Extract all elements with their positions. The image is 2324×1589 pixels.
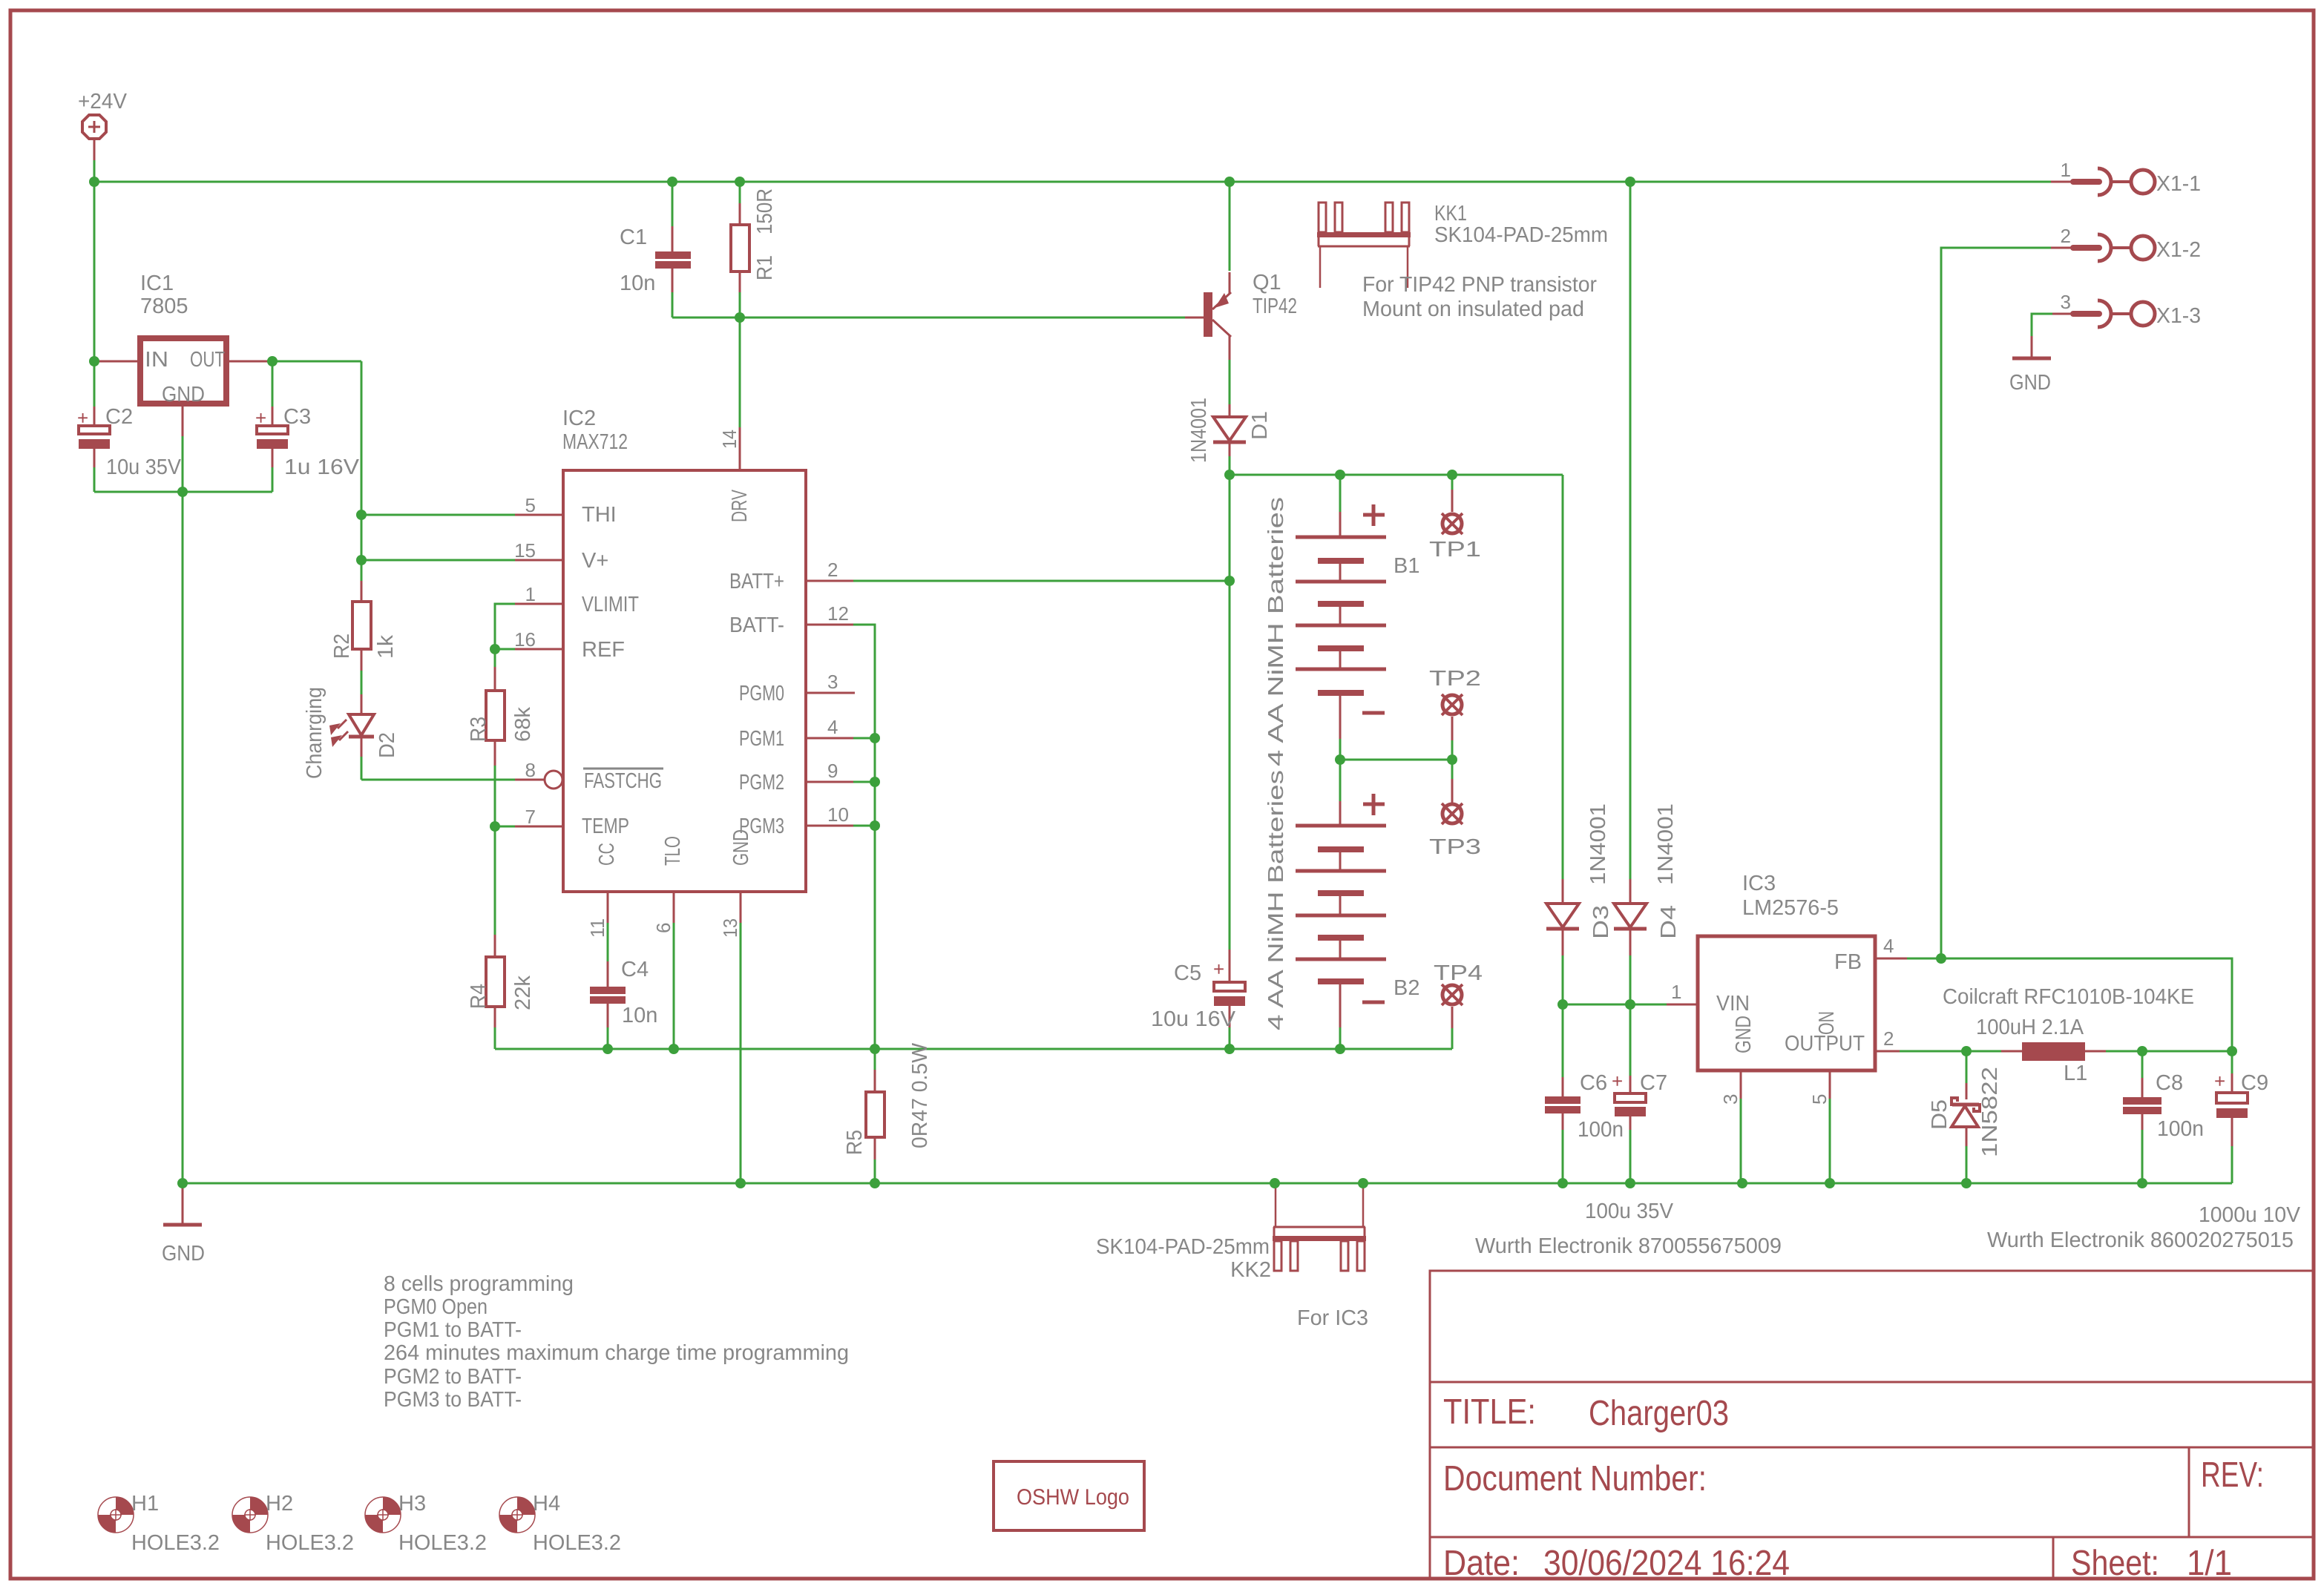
- svg-text:10n: 10n: [622, 1004, 657, 1027]
- IC2 pin 12 BATT-: [806, 624, 853, 626]
- ground rail wire: [182, 1182, 2232, 1185]
- svg-text:PGM0 Open: PGM0 Open: [384, 1295, 488, 1319]
- svg-text:C6: C6: [1580, 1071, 1607, 1095]
- svg-text:PGM2: PGM2: [739, 771, 784, 794]
- svg-text:6: 6: [652, 923, 674, 933]
- connector X1-2: [2051, 225, 2201, 262]
- svg-text:D1: D1: [1248, 411, 1272, 440]
- diode D4 1N4001: [1614, 803, 1681, 1004]
- wire battery column down: [1229, 475, 1231, 951]
- svg-text:R5: R5: [843, 1130, 867, 1155]
- svg-text:IC1: IC1: [140, 272, 174, 295]
- svg-text:12: 12: [827, 602, 849, 625]
- IC1 7805 regulator: [98, 272, 272, 438]
- svg-text:C7: C7: [1640, 1071, 1667, 1095]
- svg-text:100uH 2.1A: 100uH 2.1A: [1976, 1016, 2084, 1039]
- svg-text:7: 7: [525, 806, 536, 828]
- resistor R2: [330, 581, 398, 696]
- svg-text:HOLE3.2: HOLE3.2: [533, 1531, 621, 1555]
- wire BATT+: [853, 580, 1230, 582]
- IC3 pin 1 VIN: [1667, 1004, 1698, 1006]
- svg-text:3: 3: [827, 671, 838, 693]
- connector X1-3: [2051, 291, 2201, 328]
- wire FB up to X1-2: [1941, 248, 2052, 958]
- IC3 LM2576-5: [1667, 872, 1908, 1105]
- IC2 pin 3 PGM0 open: [806, 692, 855, 694]
- svg-text:9: 9: [827, 760, 838, 782]
- test point TP3: [1429, 760, 1481, 859]
- wire battery mid tap: [1340, 759, 1452, 761]
- svg-text:VIN: VIN: [1716, 992, 1750, 1016]
- IC3 pin 5 ON: [1829, 1070, 1831, 1100]
- mounting hole H1: [98, 1492, 220, 1555]
- IC3 pin 2 OUTPUT: [1875, 1050, 1901, 1053]
- IC2 pin 2 BATT+: [806, 580, 853, 582]
- svg-text:1N4001: 1N4001: [1586, 803, 1610, 885]
- wire battery top net: [1230, 474, 1563, 476]
- wire REF: [495, 648, 515, 651]
- svg-text:10u 16V: 10u 16V: [1151, 1007, 1236, 1031]
- svg-text:1: 1: [525, 583, 536, 605]
- svg-text:D4: D4: [1657, 905, 1681, 939]
- svg-text:1N4001: 1N4001: [1187, 398, 1211, 463]
- svg-text:C1: C1: [620, 226, 647, 249]
- wire VLIMIT to REF column: [495, 604, 515, 649]
- svg-text:IN: IN: [145, 348, 168, 372]
- svg-text:IC3: IC3: [1742, 872, 1776, 895]
- capacitor C9: [1987, 1051, 2301, 1252]
- heatsink KK1 SK104-PAD-25mm: [1317, 202, 1608, 321]
- wire DRV column: [739, 318, 741, 427]
- svg-text:10u 35V: 10u 35V: [106, 455, 182, 479]
- svg-text:16: 16: [514, 628, 536, 651]
- capacitor C6: [1545, 1004, 1624, 1183]
- IC2 MAX712: [514, 407, 855, 938]
- wire bottom BATT- net: [495, 1048, 1452, 1050]
- svg-text:For IC3: For IC3: [1297, 1306, 1368, 1330]
- svg-text:X1-2: X1-2: [2156, 238, 2201, 262]
- svg-text:13: 13: [719, 918, 741, 938]
- IC2 pin 9 PGM2: [806, 781, 853, 783]
- wire L1 to C8/C9: [2106, 1050, 2232, 1053]
- svg-text:10n: 10n: [620, 272, 655, 295]
- svg-text:For TIP42 PNP transistor: For TIP42 PNP transistor: [1362, 273, 1597, 297]
- svg-text:+24V: +24V: [78, 90, 128, 113]
- test point TP2: [1429, 667, 1481, 760]
- wire V+: [361, 559, 515, 562]
- svg-text:+: +: [1612, 1070, 1623, 1092]
- svg-text:1N5822: 1N5822: [1978, 1067, 2002, 1157]
- svg-text:TITLE:: TITLE:: [1443, 1392, 1536, 1432]
- IC2 pin 15 V+: [515, 559, 563, 562]
- svg-text:DRV: DRV: [728, 490, 752, 522]
- svg-text:TLO: TLO: [661, 836, 685, 866]
- wire TEMP: [495, 826, 515, 828]
- mounting hole H2: [232, 1492, 354, 1555]
- wire PGM2: [853, 781, 875, 783]
- svg-text:BATT+: BATT+: [729, 570, 784, 593]
- transistor Q1 TIP42: [1185, 182, 1297, 361]
- resistor R3: [467, 649, 535, 826]
- svg-text:1N4001: 1N4001: [1654, 803, 1678, 885]
- svg-text:H4: H4: [533, 1492, 560, 1516]
- svg-text:3: 3: [2061, 291, 2071, 313]
- svg-text:BATT-: BATT-: [729, 613, 784, 637]
- wire D2 to FASTCHG: [361, 779, 515, 781]
- capacitor C3: [255, 361, 360, 492]
- wire R1 bottom to Q1 base: [740, 317, 1187, 319]
- wire top rail: [94, 181, 2052, 183]
- wire OUTPUT net: [1900, 1050, 2003, 1053]
- svg-text:H2: H2: [266, 1492, 293, 1516]
- svg-text:C4: C4: [621, 958, 649, 981]
- svg-text:H1: H1: [131, 1492, 159, 1516]
- IC2 pin 8 FASTCHG with bubble: [515, 779, 544, 781]
- svg-text:2: 2: [2061, 225, 2071, 247]
- svg-text:GND: GND: [162, 1242, 205, 1266]
- svg-text:5: 5: [525, 494, 536, 516]
- capacitor C8: [2123, 1051, 2204, 1183]
- svg-text:X1-1: X1-1: [2156, 172, 2201, 196]
- heatsink KK2 SK104-PAD-25mm for IC3: [1096, 1183, 1368, 1330]
- svg-text:GND: GND: [2009, 371, 2051, 395]
- connector X1-1: [2051, 159, 2201, 196]
- svg-text:68k: 68k: [511, 707, 535, 742]
- svg-text:PGM0: PGM0: [739, 682, 784, 705]
- svg-text:THI: THI: [582, 503, 617, 527]
- svg-text:Mount on insulated pad: Mount on insulated pad: [1362, 297, 1584, 321]
- svg-text:HOLE3.2: HOLE3.2: [131, 1531, 220, 1555]
- svg-text:Document Number:: Document Number:: [1443, 1459, 1707, 1498]
- wire Q1 collector to D1: [1229, 360, 1231, 406]
- svg-text:C5: C5: [1174, 961, 1201, 985]
- svg-text:11: 11: [586, 918, 608, 938]
- wire IC3 GND pin to rail: [1740, 1099, 1742, 1183]
- svg-text:2: 2: [1883, 1027, 1894, 1050]
- IC2 pin 4 PGM1: [806, 737, 853, 740]
- wire C1 bottom to R1 bottom: [672, 317, 740, 319]
- svg-text:FASTCHG: FASTCHG: [584, 769, 662, 793]
- capacitor C2: [77, 361, 182, 492]
- diode D1 1N4001: [1187, 398, 1272, 475]
- svg-text:Wurth Electronik 860020275015: Wurth Electronik 860020275015: [1987, 1228, 2294, 1252]
- wire IC1 GND down to ground rail: [182, 436, 184, 1183]
- capacitor C4: [590, 923, 657, 1049]
- svg-text:OSHW Logo: OSHW Logo: [1017, 1485, 1129, 1510]
- svg-text:8 cells programming: 8 cells programming: [384, 1272, 574, 1296]
- svg-text:Coilcraft RFC1010B-104KE: Coilcraft RFC1010B-104KE: [1943, 985, 2194, 1009]
- resistor R4: [467, 826, 535, 1049]
- svg-text:Sheet:: Sheet:: [2071, 1544, 2159, 1583]
- svg-text:OUTPUT: OUTPUT: [1785, 1032, 1865, 1056]
- svg-text:4: 4: [1883, 935, 1894, 957]
- svg-text:2: 2: [827, 559, 838, 581]
- svg-text:100n: 100n: [2157, 1117, 2204, 1141]
- wire VIN net: [1563, 1004, 1668, 1006]
- svg-text:SK104-PAD-25mm: SK104-PAD-25mm: [1096, 1235, 1270, 1259]
- svg-text:8: 8: [525, 759, 536, 781]
- svg-text:PGM1 to BATT-: PGM1 to BATT-: [384, 1318, 522, 1342]
- svg-text:REV:: REV:: [2201, 1455, 2264, 1495]
- wire PGM1: [853, 737, 875, 740]
- battery B2 4 AA NiMH: [1264, 760, 1419, 1049]
- wire down to THI column: [361, 361, 363, 581]
- IC2 pin 1 VLIMIT: [515, 603, 563, 605]
- IC3 pin 3 GND: [1740, 1070, 1742, 1100]
- svg-text:1/1: 1/1: [2187, 1544, 2232, 1583]
- svg-text:1000u 10V: 1000u 10V: [2199, 1203, 2301, 1227]
- battery B1 4 AA NiMH: [1264, 475, 1419, 766]
- svg-text:TP4: TP4: [1434, 961, 1483, 985]
- svg-text:KK2: KK2: [1230, 1258, 1271, 1282]
- wire +24V to top rail: [93, 160, 96, 182]
- svg-text:R3: R3: [467, 717, 490, 742]
- svg-text:4 AA NiMH Batteries: 4 AA NiMH Batteries: [1264, 497, 1288, 766]
- svg-text:HOLE3.2: HOLE3.2: [398, 1531, 487, 1555]
- svg-text:OUT: OUT: [190, 348, 225, 372]
- mounting hole H3: [365, 1492, 487, 1555]
- IC2 pin 6 TLO: [673, 892, 675, 923]
- svg-text:D5: D5: [1928, 1099, 1952, 1130]
- svg-text:3: 3: [1719, 1094, 1742, 1105]
- svg-text:C9: C9: [2241, 1071, 2268, 1095]
- test point TP4: [1434, 961, 1483, 1049]
- svg-text:TP3: TP3: [1429, 835, 1481, 859]
- svg-text:PGM2 to BATT-: PGM2 to BATT-: [384, 1365, 522, 1389]
- svg-text:KK1: KK1: [1434, 202, 1467, 226]
- svg-text:4 AA NiMH Batteries: 4 AA NiMH Batteries: [1264, 770, 1288, 1030]
- IC2 pin 13 GND: [740, 892, 742, 923]
- svg-text:PGM3 to BATT-: PGM3 to BATT-: [384, 1388, 522, 1412]
- mounting hole H4: [499, 1492, 621, 1555]
- svg-text:LM2576-5: LM2576-5: [1742, 896, 1839, 920]
- IC3 pin 4 FB: [1875, 958, 1908, 960]
- wire IC3 ON pin to rail: [1829, 1099, 1831, 1183]
- svg-text:VLIMIT: VLIMIT: [582, 593, 639, 616]
- capacitor C7: [1475, 1004, 1782, 1258]
- svg-text:100u 35V: 100u 35V: [1585, 1200, 1674, 1223]
- svg-text:IC2: IC2: [562, 407, 596, 430]
- svg-text:1u 16V: 1u 16V: [284, 455, 360, 479]
- svg-text:H3: H3: [398, 1492, 426, 1516]
- svg-text:1k: 1k: [374, 634, 398, 659]
- svg-text:150R: 150R: [753, 188, 777, 234]
- wire OUT to C3/right: [272, 361, 361, 363]
- svg-text:Date:: Date:: [1443, 1544, 1520, 1583]
- wire FB net: [1907, 958, 2232, 1051]
- svg-text:+: +: [1213, 958, 1224, 980]
- wire PGM3: [853, 825, 875, 827]
- svg-text:1: 1: [1671, 981, 1681, 1003]
- wire D4 branch from top rail: [1629, 182, 1632, 881]
- svg-text:L1: L1: [2064, 1062, 2087, 1085]
- IC1 pin OUT: [229, 361, 272, 363]
- svg-text:GND: GND: [1732, 1016, 1756, 1053]
- svg-text:10: 10: [827, 803, 849, 826]
- svg-text:GND: GND: [162, 383, 205, 407]
- svg-text:B1: B1: [1394, 554, 1419, 578]
- supply symbol +24V: [78, 90, 128, 160]
- svg-text:+: +: [2214, 1070, 2225, 1092]
- test point TP1: [1429, 475, 1481, 562]
- svg-text:SK104-PAD-25mm: SK104-PAD-25mm: [1434, 223, 1608, 247]
- OSHW Logo box: [994, 1461, 1144, 1530]
- capacitor C1: [620, 182, 691, 318]
- IC2 pin 11 CC: [607, 892, 609, 923]
- svg-text:PGM3: PGM3: [739, 815, 784, 838]
- svg-text:4: 4: [827, 716, 838, 738]
- svg-text:REF: REF: [582, 638, 625, 662]
- svg-text:V+: V+: [582, 549, 608, 573]
- ground symbol GND left: [162, 1183, 205, 1266]
- resistor R5: [843, 1042, 932, 1183]
- LED D2: [303, 687, 399, 780]
- wire X1-3 to ground: [2032, 314, 2052, 338]
- svg-text:B2: B2: [1394, 976, 1419, 1000]
- svg-text:R1: R1: [753, 255, 777, 280]
- IC2 pin 16 REF: [515, 648, 563, 651]
- svg-text:14: 14: [718, 430, 741, 449]
- svg-text:FB: FB: [1834, 950, 1862, 974]
- svg-text:100n: 100n: [1578, 1118, 1624, 1142]
- svg-text:Wurth Electronik 870055675009: Wurth Electronik 870055675009: [1475, 1234, 1782, 1258]
- svg-text:Q1: Q1: [1253, 271, 1281, 295]
- wire TLO to bottom: [673, 923, 675, 1049]
- svg-text:264 minutes maximum charge tim: 264 minutes maximum charge time programm…: [384, 1341, 849, 1365]
- svg-text:TEMP: TEMP: [582, 815, 629, 838]
- svg-text:TP1: TP1: [1429, 538, 1481, 562]
- svg-text:15: 15: [514, 539, 536, 562]
- svg-text:22k: 22k: [511, 976, 535, 1010]
- wire BATT- to PGM column: [853, 625, 875, 1049]
- ground symbol GND right: [2009, 336, 2051, 395]
- svg-text:D3: D3: [1589, 905, 1613, 939]
- resistor R1: [731, 182, 777, 318]
- title block frame: [1430, 1271, 2314, 1579]
- wire C2/GND/C3 bottom: [94, 491, 272, 493]
- svg-text:TP2: TP2: [1429, 667, 1481, 691]
- IC1 pin GND: [182, 407, 184, 438]
- svg-text:R2: R2: [330, 634, 354, 659]
- svg-text:Chanrging: Chanrging: [303, 687, 326, 779]
- svg-text:1: 1: [2061, 159, 2071, 181]
- schottky diode D5 1N5822: [1928, 1051, 2002, 1183]
- wire IC2 GND to ground rail: [740, 923, 742, 1183]
- svg-text:R4: R4: [467, 984, 490, 1009]
- svg-text:D2: D2: [375, 732, 399, 758]
- svg-text:0R47 0.5W: 0R47 0.5W: [908, 1042, 932, 1148]
- svg-text:MAX712: MAX712: [562, 430, 628, 454]
- svg-text:C8: C8: [2156, 1071, 2183, 1095]
- svg-text:CC: CC: [595, 843, 619, 866]
- svg-text:7805: 7805: [140, 295, 188, 318]
- IC1 pin IN: [98, 361, 137, 363]
- svg-text:HOLE3.2: HOLE3.2: [266, 1531, 354, 1555]
- svg-text:X1-3: X1-3: [2156, 304, 2201, 328]
- svg-text:30/06/2024 16:24: 30/06/2024 16:24: [1543, 1544, 1790, 1583]
- wire +24V down to IC1 IN: [93, 182, 96, 361]
- IC2 pin 10 PGM3: [806, 825, 853, 827]
- wire THI: [361, 514, 515, 516]
- inductor L1: [1943, 985, 2194, 1085]
- IC2 pin 7 TEMP: [515, 826, 563, 828]
- svg-text:TIP42: TIP42: [1253, 295, 1297, 318]
- svg-text:Charger03: Charger03: [1589, 1394, 1729, 1433]
- IC2 pin 5 THI: [515, 514, 563, 516]
- notes text block: [384, 1272, 849, 1412]
- diode D3 1N4001: [1546, 475, 1613, 1004]
- svg-text:PGM1: PGM1: [739, 727, 784, 751]
- IC2 pin 14 DRV: [739, 427, 741, 470]
- svg-text:5: 5: [1808, 1094, 1831, 1105]
- capacitor C5: [1151, 950, 1245, 1049]
